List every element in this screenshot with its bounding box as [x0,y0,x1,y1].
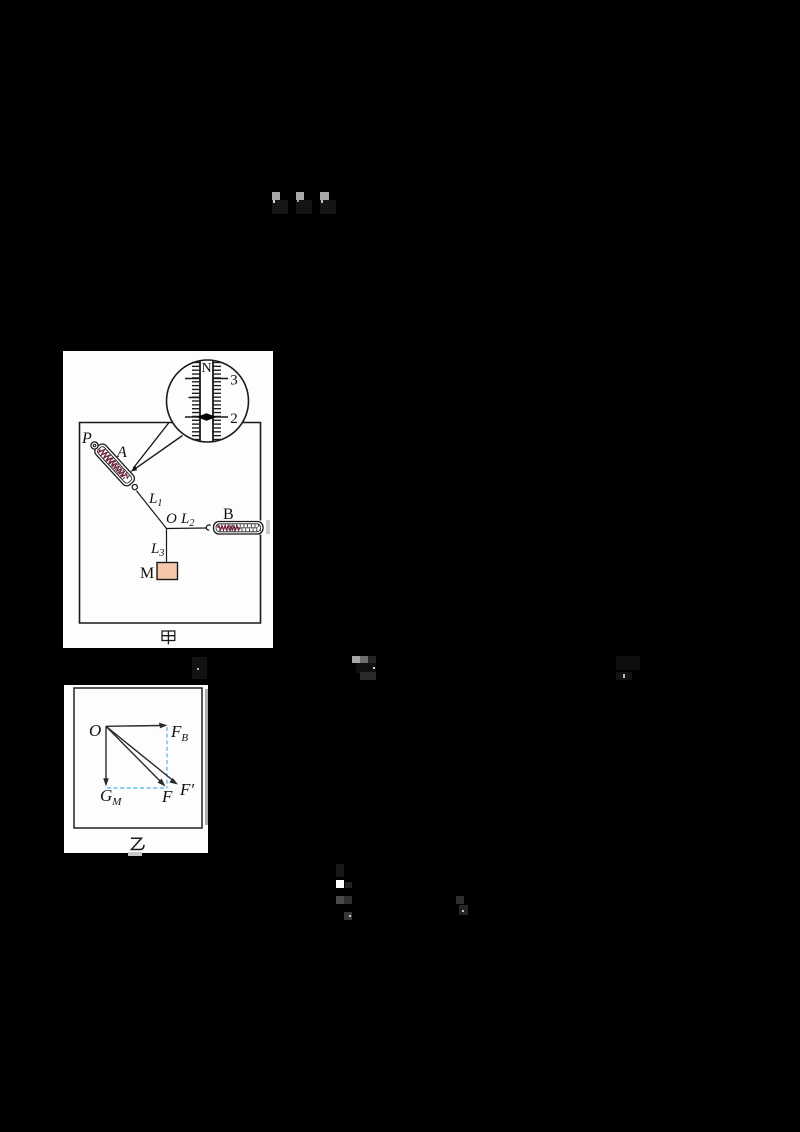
major tick at 3 [185,378,228,380]
caption yi (drawn) [131,838,144,849]
scale B axis line [237,527,258,529]
gray square lower [344,912,352,920]
gray squares row [336,896,344,904]
scale B spring [218,526,241,530]
spring scale A group [93,442,142,494]
tail outline lines [133,423,183,470]
magnifier circle [167,360,249,442]
pivot P ring [91,442,98,449]
tail arrowhead [130,466,137,472]
board rectangle (gap on right edge behind scale B) [80,423,261,624]
svg-text:M: M [140,565,154,582]
figure jia panel [63,351,273,648]
svg-text:GM: GM [100,786,122,808]
svg-text:P: P [81,430,92,447]
faint glyph remnant under box 3 [320,200,336,214]
svg-text:O: O [89,721,101,740]
minor ticks on scale face [192,363,221,440]
gray smudge below yi caption [128,852,142,856]
vector FB (horizontal) [106,725,162,728]
faint mark column (x~336,y~864) [336,864,344,877]
svg-text:3: 3 [230,373,238,389]
scale A body [93,442,137,488]
svg-text:N: N [201,361,211,376]
svg-text:A: A [116,444,127,461]
blank marker box 1 [272,192,280,200]
faint glyph remnant (x~620,y~656) [616,656,640,670]
vector GM (vertical) [105,726,107,780]
faint glyph remnant under box 2 [296,200,312,214]
scale A inner frame [96,445,133,484]
major tick at 2 [185,416,228,418]
svg-text:F: F [161,787,173,806]
magnifier bubble tail [132,423,183,470]
pointer diamond [197,413,217,421]
dashed guide vertical [166,727,168,788]
hook of scale B [206,525,210,530]
faint glyph remnant under box 1 [272,200,288,214]
caption jia (drawn) [162,631,175,644]
mid tick left [189,397,201,399]
gray block cluster (x~352,y~656) [352,656,360,663]
scale B ticks [218,524,261,531]
scale B body [214,522,264,535]
white marker square [336,880,344,888]
gray strip at right edge of yi panel [205,689,208,825]
svg-text:L2: L2 [180,511,194,529]
gray strip right of scale B [266,520,270,535]
scale A spring [98,447,129,480]
dashed guide horizontal [107,787,167,789]
string L1 [137,491,167,529]
string L3 [166,529,168,563]
blank marker box 3 [320,192,329,200]
scale A hook [131,483,138,490]
scale A ticks [98,447,130,481]
svg-text:B: B [223,506,234,523]
vector F (resultant) [106,726,161,782]
scale B inner frame [216,524,261,532]
svg-text:L1: L1 [148,491,162,509]
faint marks (x~460,y~896) [456,896,464,904]
svg-text:2: 2 [230,411,238,427]
vector F prime [106,726,173,780]
scale face window lines [200,360,213,442]
svg-text:L3: L3 [150,541,164,559]
blank marker box 2 [296,192,304,200]
figure yi panel [64,685,208,853]
svg-text:FB: FB [170,722,188,744]
block M [157,563,178,580]
faint glyph remnant left of yi (x~195,y~656) [192,657,207,679]
svg-text:F′: F′ [179,780,194,799]
svg-text:O: O [166,511,177,527]
border rectangle [74,688,202,828]
string L2 [167,527,208,530]
